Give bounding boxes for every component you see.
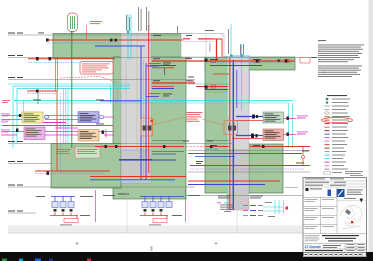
right building row2 floor line — [188, 83, 229, 85]
floor line EG left — [8, 163, 52, 165]
cyan inner box left top edge — [17, 88, 130, 90]
labels under trees — [60, 224, 161, 227]
tiny dark text smudges (floor labels left) — [8, 33, 317, 212]
floor line 2.OG left — [8, 79, 195, 81]
violet short riser shaft B — [236, 70, 238, 108]
bottom black bar — [0, 252, 303, 261]
cluster C red glyph — [286, 207, 289, 210]
cyan riser right building second — [241, 45, 243, 111]
blue return right building to pink box — [236, 135, 263, 137]
tree 2 labels — [172, 195, 200, 216]
callout divider — [205, 34, 207, 58]
red run EG left — [35, 170, 110, 172]
green tall middle column left building — [113, 57, 186, 199]
red drop far right — [302, 147, 304, 166]
tree 1 labels — [80, 195, 115, 216]
red run floor1 right building — [206, 146, 310, 148]
red second floor3 right — [152, 67, 174, 69]
magenta left margin labels — [1, 114, 10, 136]
shaft A divider — [126, 34, 137, 151]
kW label left of tree1 — [36, 195, 45, 198]
blue dashed EG left — [35, 173, 105, 175]
tree 1 blue boxes — [52, 202, 74, 208]
red riser shaft B — [229, 58, 231, 210]
blue dashed right building row1 — [205, 62, 292, 64]
blue right building row2 — [205, 89, 228, 91]
blue return right building row — [210, 65, 262, 67]
red highlight ellipse in legend — [322, 118, 353, 123]
cyan verticals left of shaft A — [111, 86, 118, 103]
component violet box — [24, 127, 45, 140]
callout rotated label — [209, 43, 212, 52]
blue riser shaft B — [232, 60, 234, 210]
small gray glyph above black bar — [151, 246, 153, 251]
magenta pump outlet lavender — [104, 116, 114, 118]
tree 1 red box — [64, 219, 78, 223]
blue dashed in cyan box — [27, 93, 57, 95]
black drain vertical — [37, 91, 39, 104]
red dashed leader to note — [60, 77, 117, 84]
teal short line right building — [206, 148, 218, 150]
cyan riser shaft A pair — [128, 14, 131, 60]
callout red pipe segments — [183, 38, 213, 40]
tree 1 magenta stem — [95, 190, 97, 222]
label above callout — [205, 30, 214, 31]
red stub right of orange box — [105, 130, 107, 138]
blue floor2 mid — [152, 88, 174, 90]
magenta from teal box — [283, 118, 295, 120]
floor line right building upper — [188, 150, 310, 152]
red annotation mid gap — [187, 112, 203, 122]
magenta from pink box — [283, 134, 295, 136]
tree 2 red manifold — [140, 213, 168, 219]
red drop left continuing to EG — [56, 91, 58, 171]
green block row1 left building — [53, 34, 190, 59]
grid line right of tree2 — [236, 210, 238, 233]
bottom cluster A header — [218, 196, 231, 199]
cluster C cyan frame — [263, 200, 284, 214]
magenta feed violet box — [2, 132, 24, 136]
blue dashed right building row2 — [205, 91, 228, 93]
floor line right building low — [185, 195, 310, 197]
left column cell texts — [305, 199, 335, 229]
red mini component left green edge — [141, 118, 153, 136]
cyan riser right building top — [230, 24, 232, 57]
titleblock frame — [303, 178, 367, 257]
pink dashed gap crossing floor1 — [186, 146, 206, 148]
red run into cyan box — [27, 90, 57, 92]
shaft B hatched lower — [227, 150, 249, 210]
map header strip — [337, 200, 367, 202]
barcode strip — [304, 253, 367, 257]
blue short floor1 mid — [152, 153, 176, 155]
floor line 3.OG left — [8, 57, 310, 59]
green sub-edge lines — [152, 140, 229, 142]
callout fold corner — [220, 34, 224, 37]
red row right building y165 — [190, 165, 310, 167]
red supply right building to teal box — [232, 120, 263, 122]
green tall column right building — [205, 57, 229, 193]
note above titleblock — [345, 171, 363, 176]
red mini component right green edge — [224, 121, 238, 135]
tree 1 blue manifold — [51, 197, 75, 202]
violet row stubs — [146, 66, 159, 97]
tree 2 red box — [153, 219, 167, 223]
red right building row2 — [196, 86, 228, 88]
red couplers on floor3 run — [211, 59, 289, 62]
magenta feed yellow box — [2, 116, 22, 120]
red note text lines — [82, 64, 110, 73]
red component far right floor1 — [302, 156, 305, 159]
BOTTOM DISTRIBUTION TREES — [36, 190, 288, 233]
taskbar colored specks — [2, 259, 91, 261]
tree 2 blue boxes — [142, 202, 172, 208]
red row right building y153 — [188, 153, 302, 155]
blue dashed drop left — [60, 94, 62, 174]
labels inside green column — [163, 62, 171, 65]
component yellow box — [22, 112, 43, 123]
blue run EG mid — [90, 179, 175, 181]
map red dot — [351, 221, 353, 223]
blue row right building y156 — [195, 156, 235, 158]
red elbow x222 top — [198, 39, 222, 57]
tree 2 T glyphs — [144, 209, 163, 212]
floor line 4.OG left — [8, 34, 190, 36]
legend icons column — [326, 98, 329, 101]
cluster B extra text — [258, 205, 263, 216]
cyan inner box left vertical — [16, 89, 18, 144]
long bottom margin line — [8, 232, 302, 234]
red dashed callout in lower green — [75, 147, 100, 158]
tree 2 magenta stem — [185, 190, 187, 222]
red drop pair left — [55, 58, 57, 92]
map dark detail — [345, 209, 351, 215]
red riser x216 through callout — [216, 39, 218, 61]
red note box mid-left — [80, 62, 113, 75]
magenta label teal box — [297, 116, 308, 119]
capsule green hatches — [71, 16, 75, 29]
red+blue floor2 mid — [152, 86, 174, 88]
bottom margin gray band — [8, 226, 302, 234]
magenta dashes to label teal — [295, 118, 302, 120]
white callout box top right — [181, 30, 224, 57]
tree 1 T glyphs — [54, 209, 73, 212]
red endbox floor3 far right — [300, 58, 310, 64]
tree 2 blue manifold — [140, 197, 184, 202]
teal diamonds at riser bottoms — [127, 31, 243, 57]
red annotation top (2x TWW) — [90, 21, 102, 24]
orange verticals near shaft component — [154, 118, 156, 126]
green lower-left block — [51, 144, 121, 189]
red supply floor3 right of shaft — [152, 60, 295, 62]
cyan drop verticals left cluster — [64, 88, 69, 143]
red note capsule top-left — [68, 13, 78, 32]
blue square logo — [337, 189, 345, 197]
address hatch block — [305, 235, 320, 241]
red supply floor2 mid column — [152, 82, 195, 84]
magenta label pink box — [297, 132, 308, 135]
cluster B blue labels — [250, 205, 256, 216]
tree 1 red manifold — [50, 213, 78, 219]
red main riser shaft A — [148, 25, 150, 173]
cluster A magenta stub — [217, 202, 221, 204]
cyan long run mid spanning both buildings — [14, 100, 293, 102]
company row dividers — [303, 244, 367, 253]
capsule bottom circle — [71, 31, 73, 33]
cyan verticals right building lower — [289, 103, 293, 148]
floor labels right building — [183, 140, 213, 143]
blue dashed riser shaft A — [143, 60, 145, 178]
blue thick lateral in shaft A — [119, 159, 152, 161]
orange corner curves right gap — [222, 117, 229, 126]
cyan drop into yellow box — [23, 101, 25, 113]
magenta elbow thick — [40, 122, 66, 124]
magenta dashes to label pink — [295, 134, 302, 136]
blue paragraph glyph — [328, 190, 332, 197]
red supply floor4 left — [47, 39, 183, 41]
map triangle north — [360, 199, 364, 203]
red supply floor3 left — [28, 58, 115, 60]
bottom cluster B header — [250, 196, 263, 199]
shaft A gray — [121, 34, 151, 151]
pump ellipse after lavender box — [99, 116, 104, 119]
rotated riser labels above blocks — [126, 7, 244, 55]
floor line right building mid — [188, 171, 310, 173]
magenta loop violet to orange — [45, 132, 78, 136]
pump ellipse after yellow box — [44, 116, 49, 119]
red leader drop from top annotation — [86, 25, 88, 40]
green lower-right block — [249, 144, 283, 193]
violet riser shaft A second — [145, 63, 147, 180]
red left margin annotation upper — [2, 100, 10, 103]
component pink box right building — [263, 129, 284, 141]
cyan run mid second — [17, 102, 289, 104]
LEGEND text paragraphs top right — [318, 40, 364, 77]
cyan long run upper — [8, 83, 130, 85]
red annotation left of callout — [56, 149, 71, 154]
cyan outer box left vertical — [12, 86, 14, 148]
component teal box right building — [263, 112, 284, 123]
svg-text:ZT-Kowall: ZT-Kowall — [305, 245, 321, 249]
blue return floor4 — [95, 45, 145, 47]
red row stubs shaft A — [149, 64, 161, 94]
blue dashed floor4 — [47, 42, 120, 44]
revision rows — [303, 181, 367, 187]
blue return right building to teal box — [236, 116, 263, 118]
cluster A cyan stub — [224, 202, 228, 204]
fold cross marks — [76, 242, 218, 245]
black square icon — [306, 188, 309, 191]
component orange box left building — [78, 130, 99, 142]
dark triangle marker right row — [277, 60, 281, 63]
labels inside green row1 — [153, 34, 161, 37]
blue return floor3 right of shaft — [150, 65, 176, 67]
red short floor1 mid — [152, 151, 184, 153]
legend row text labels — [332, 99, 350, 173]
green sewer line vertical — [71, 28, 73, 148]
magenta separator thick — [2, 125, 113, 127]
SYMBOL LEGEND header — [327, 95, 347, 96]
blue run floor1 mid right — [152, 159, 176, 161]
blue dashed floor3 left — [28, 62, 110, 64]
red run EG mid — [90, 176, 186, 178]
green row top right building — [205, 57, 295, 70]
red text in dashed callout — [77, 149, 98, 154]
grid line between trees — [126, 190, 128, 233]
shaft B gray — [227, 57, 249, 150]
component lavender box left building — [78, 112, 99, 123]
blue row right building y184.5 — [188, 184, 265, 186]
cluster B magenta stubs — [243, 206, 248, 216]
red run floor1 left — [95, 146, 184, 148]
title text rows — [322, 235, 359, 241]
magenta upper second loop — [55, 127, 78, 129]
cyan outer box left top edge — [13, 85, 130, 87]
red mid stub right building — [213, 73, 229, 75]
floor line 1.OG — [8, 143, 232, 145]
TITLE BLOCK — [303, 178, 367, 257]
cyan elbow over shaft B — [231, 56, 250, 103]
violet lateral into shaft — [100, 100, 141, 102]
page right edge shadow — [369, 0, 373, 252]
blue dashed right building y169 — [190, 168, 305, 170]
magenta loop yellow to lavender — [45, 116, 78, 120]
floor line stub near titleblock — [285, 187, 298, 189]
callout blue dashed — [183, 41, 213, 43]
plan line text — [305, 250, 343, 251]
violet riser shaft A — [140, 46, 142, 180]
bottom cluster A grid — [220, 205, 234, 212]
magenta orange box to shaft — [99, 132, 114, 136]
orange leader lines from mid annotation — [152, 117, 224, 125]
scale mini table — [345, 244, 367, 253]
shaft A hatched lower — [121, 150, 151, 183]
red row right building y181 — [188, 180, 280, 182]
left table rows — [303, 198, 367, 234]
map sketch region — [340, 205, 362, 229]
red supply right building to pink box — [232, 138, 263, 140]
red coupler row2 — [211, 85, 216, 88]
floor line KG left — [8, 186, 195, 188]
valves and small dark symbols — [16, 39, 289, 175]
floor line base left — [8, 212, 36, 214]
cluster C labels — [265, 202, 275, 217]
